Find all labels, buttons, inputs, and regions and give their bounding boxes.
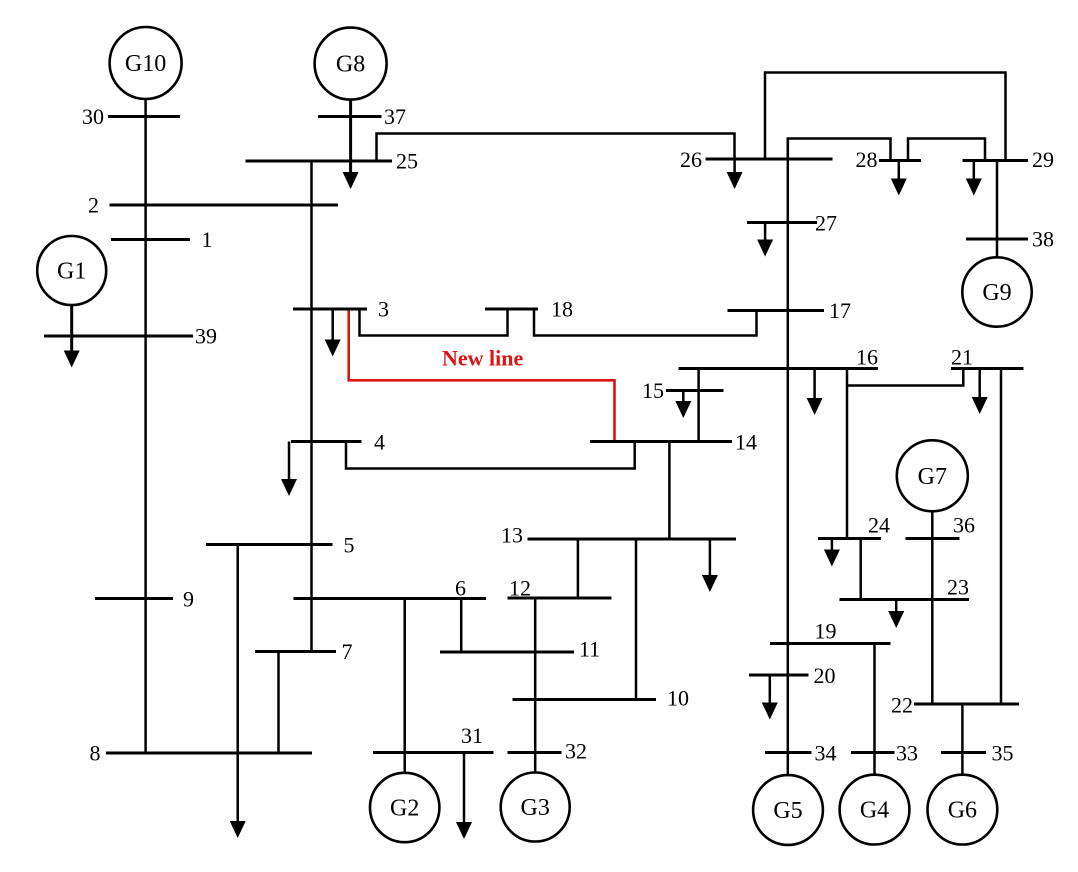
svg-text:32: 32 — [565, 739, 587, 764]
svg-text:5: 5 — [344, 533, 355, 558]
svg-text:17: 17 — [829, 298, 851, 323]
svg-text:13: 13 — [501, 523, 523, 548]
svg-text:10: 10 — [667, 686, 689, 711]
svg-text:25: 25 — [396, 149, 418, 174]
svg-text:G2: G2 — [390, 796, 419, 822]
svg-text:2: 2 — [88, 193, 99, 218]
svg-text:33: 33 — [896, 741, 918, 766]
svg-text:G9: G9 — [982, 280, 1011, 306]
svg-text:38: 38 — [1032, 227, 1054, 252]
svg-text:7: 7 — [342, 639, 353, 664]
svg-text:6: 6 — [455, 576, 466, 601]
svg-text:29: 29 — [1032, 147, 1054, 172]
svg-text:11: 11 — [579, 637, 600, 662]
svg-text:19: 19 — [815, 619, 837, 644]
svg-text:G3: G3 — [521, 795, 550, 821]
svg-text:8: 8 — [90, 741, 101, 766]
svg-text:27: 27 — [815, 211, 837, 236]
svg-text:20: 20 — [814, 663, 836, 688]
svg-text:39: 39 — [195, 324, 217, 349]
svg-text:4: 4 — [374, 430, 385, 455]
svg-text:G4: G4 — [860, 798, 889, 824]
svg-text:G1: G1 — [57, 259, 86, 285]
svg-text:G8: G8 — [336, 52, 365, 78]
svg-text:G10: G10 — [125, 51, 166, 77]
svg-text:26: 26 — [680, 147, 702, 172]
svg-text:16: 16 — [856, 345, 878, 370]
svg-text:9: 9 — [183, 587, 194, 612]
svg-text:34: 34 — [815, 741, 837, 766]
svg-text:23: 23 — [947, 575, 969, 600]
svg-text:G7: G7 — [918, 464, 947, 490]
svg-text:22: 22 — [891, 693, 913, 718]
svg-text:G5: G5 — [773, 798, 802, 824]
svg-text:36: 36 — [953, 513, 975, 538]
svg-text:35: 35 — [992, 741, 1014, 766]
svg-text:G6: G6 — [948, 798, 977, 824]
svg-text:37: 37 — [384, 104, 406, 129]
svg-text:24: 24 — [868, 513, 890, 538]
svg-text:30: 30 — [82, 104, 104, 129]
svg-text:21: 21 — [951, 345, 973, 370]
svg-text:1: 1 — [202, 227, 213, 252]
svg-text:28: 28 — [856, 147, 878, 172]
svg-text:3: 3 — [378, 297, 389, 322]
svg-text:18: 18 — [551, 297, 573, 322]
svg-text:12: 12 — [509, 576, 531, 601]
svg-text:15: 15 — [642, 378, 664, 403]
svg-text:14: 14 — [735, 430, 757, 455]
svg-text:New line: New line — [442, 346, 524, 371]
svg-text:31: 31 — [461, 723, 483, 748]
